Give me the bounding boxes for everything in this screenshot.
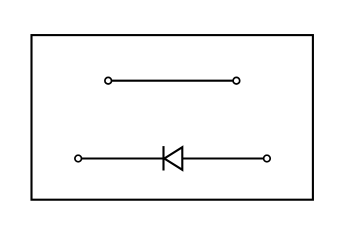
terminal (bottom left) [75, 155, 82, 162]
terminal (bottom right) [264, 155, 271, 162]
wire (bottom left segment) [82, 157, 164, 159]
wire (top feed-through) [112, 80, 234, 82]
terminal (top right) [233, 77, 240, 84]
diode D1 (triangle, anode right, pointing left) [164, 147, 182, 170]
diode D1 (cathode bar) [162, 146, 164, 170]
wire (bottom right segment) [182, 157, 263, 159]
terminal (top left) [105, 77, 112, 84]
terminal block outline [32, 35, 313, 200]
